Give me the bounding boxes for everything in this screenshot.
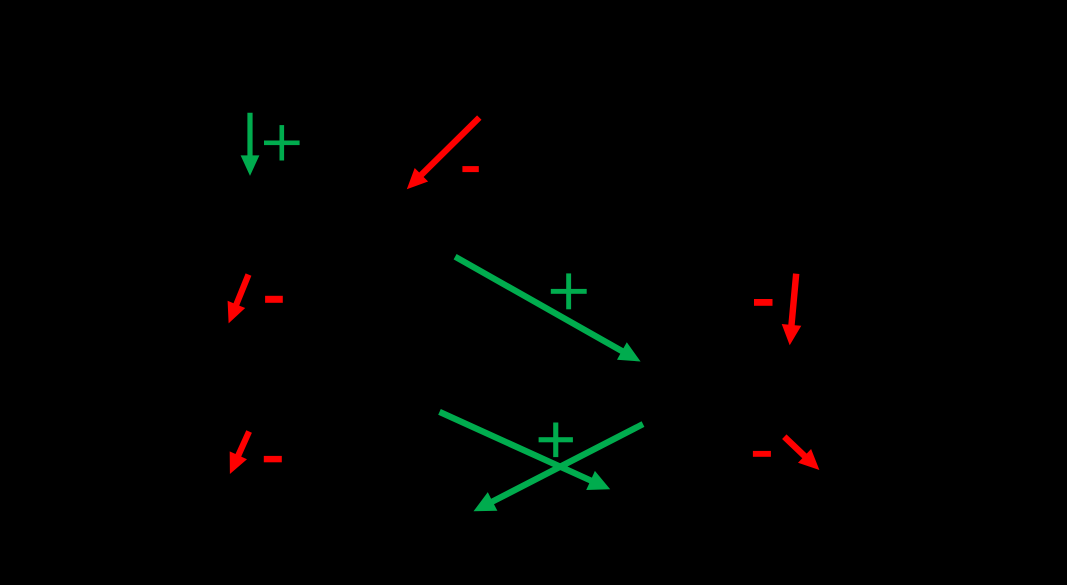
plus sign at crossing green arrows <box>539 423 573 458</box>
green crossing arrow down-right, positive link <box>438 409 610 490</box>
minus sign next to left lower red arrow <box>264 456 282 462</box>
plus sign on long green arrow <box>551 273 587 309</box>
minus sign next to right red arrow <box>754 299 773 306</box>
minus sign next to top red arrow <box>462 166 478 172</box>
red arrow down (right), negative link <box>782 273 802 345</box>
minus sign next to bottom right red arrow <box>753 451 771 457</box>
green arrow down (top-left), positive link <box>241 113 260 176</box>
green crossing arrow down-left, positive link <box>474 421 645 511</box>
plus sign next to green down arrow <box>264 125 300 160</box>
red arrow down-left (left lower), negative link <box>230 430 252 474</box>
red arrow down-left (top), negative link <box>407 115 482 189</box>
red arrow down-left (left middle), negative link <box>228 273 252 323</box>
minus sign next to left middle red arrow <box>265 296 283 303</box>
long green arrow down-right (center), positive link <box>454 254 641 362</box>
red arrow down-right (bottom right), negative link <box>782 434 819 470</box>
